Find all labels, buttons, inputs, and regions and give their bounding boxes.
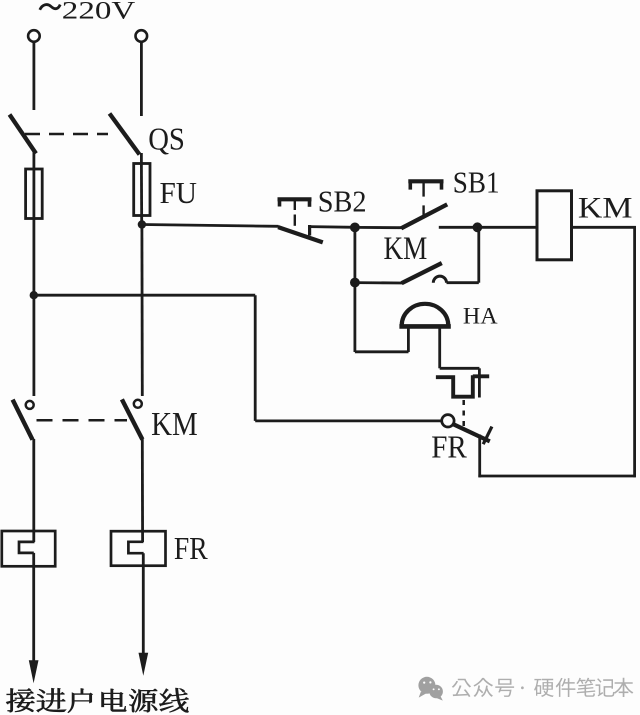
wire: right rail through fuse down to node D (140, 164, 143, 225)
wire: down to FR element (478, 368, 481, 397)
wire: node C run to FR contact (34, 294, 255, 297)
wm char 件 (556, 678, 576, 697)
svg-text:KM: KM (578, 192, 633, 225)
wire: bell right leg (438, 328, 441, 368)
wm char 众 (474, 678, 494, 697)
heater FR pole 1 (box) (2, 531, 55, 566)
char 进 (37, 688, 66, 712)
wire: KM coil to right rail (572, 226, 636, 229)
wire: left rail from terminal to QS (33, 42, 36, 110)
caption: 接进户电源线 (incoming household power lines) (6, 688, 188, 712)
wire: bottom return run (478, 475, 635, 478)
heater FR pole 2 jog (128, 542, 143, 553)
wire: right rail down to KM main contact (140, 225, 143, 397)
node C junction (left rail) (30, 292, 37, 299)
svg-text:FU: FU (160, 176, 198, 210)
FR contact blade (454, 424, 490, 441)
wire: across toward FR (440, 367, 480, 370)
wm char 笔 (576, 678, 595, 697)
wire: node B to KM coil (477, 226, 537, 229)
wire: drop to FR contact level (254, 295, 257, 421)
arrowhead right (139, 653, 149, 676)
wire: node A to SB1 (355, 226, 402, 229)
char 电 (102, 689, 127, 712)
char 源 (129, 689, 157, 712)
wire: node E down to bell branch (353, 283, 356, 353)
QS mechanical link (dashed) (25, 133, 108, 136)
node B junction (473, 223, 482, 232)
wire: bell left leg (407, 325, 410, 352)
pushbutton SB1 (NO, start) (401, 180, 447, 228)
wire: FR contact down to bottom run (478, 435, 481, 478)
svg-text:QS: QS (148, 121, 185, 156)
switch QS pole 1 (blade) (10, 115, 37, 154)
wire: left rail through fuse down to node C (33, 170, 36, 296)
wire: left outgoing conductor (32, 553, 35, 663)
FR contact stop tick (483, 427, 492, 445)
wm char 硬 (534, 679, 554, 697)
svg-text:HA: HA (463, 303, 498, 329)
wm char · (521, 686, 524, 689)
wire: to FR contact pivot (255, 419, 441, 422)
wire: right outgoing conductor (142, 553, 145, 656)
svg-text:KM: KM (384, 231, 428, 267)
wire: riser up to node B (477, 227, 480, 282)
wire: left rail to heater (32, 439, 35, 542)
FR mechanical link (dashed) (462, 400, 465, 428)
wm char 公 (452, 679, 471, 697)
char 户 (68, 689, 92, 713)
contact FR (NC, thermal overload) pivot (442, 415, 454, 427)
char 接 (6, 688, 34, 712)
pushbutton SB2 (NC, stop) (278, 198, 323, 242)
contact KM main pole 2 (122, 399, 142, 439)
wire: SB2 to node A (310, 225, 355, 228)
wire: QS pole1 to fuse (33, 152, 36, 170)
label: supply voltage ~220V (40, 5, 60, 10)
wm char 本 (614, 678, 634, 697)
terminal L1 (left supply terminal) (28, 30, 40, 42)
wire: aux contact to riser (447, 281, 479, 284)
svg-text:SB1: SB1 (453, 164, 500, 199)
node D junction below right fuse (138, 221, 145, 228)
svg-text:220V: 220V (62, 0, 136, 24)
KM mechanical link (dashed) (37, 419, 128, 422)
coil KM (contactor coil) (537, 191, 572, 260)
wire: left rail down to KM main contact (33, 296, 36, 396)
fuse FU pole 1 (left) (26, 169, 43, 219)
wm char 号 (495, 679, 514, 697)
wire: across to bell HA (355, 350, 409, 353)
svg-text:FR: FR (174, 530, 208, 566)
svg-text:SB2: SB2 (318, 185, 367, 219)
node E junction (self-hold branch) (351, 278, 360, 287)
wire: node A down to self-hold branch (353, 227, 356, 282)
wm char 记 (596, 678, 615, 696)
terminal L2 (right supply terminal) (136, 30, 148, 42)
wire: node E to KM aux contact (355, 281, 402, 284)
watermark wechat logo (418, 677, 443, 701)
wire: QS pole2 to fuse (140, 153, 143, 165)
thermal element FR (actuator) (436, 375, 489, 396)
wire: node D to SB2 (142, 225, 279, 227)
svg-text:KM: KM (151, 406, 198, 443)
wire: right rail from terminal to QS (140, 42, 143, 116)
switch QS pole 2 (blade) (110, 114, 140, 155)
bell HA (dome + base) (399, 304, 450, 327)
wire: right return rail (down) (633, 226, 636, 477)
heater FR pole 1 jog (19, 542, 35, 553)
contact KM main pole 1 (13, 400, 34, 440)
fuse FU pole 2 (right) (134, 164, 150, 216)
arrowhead left (29, 660, 39, 683)
char 线 (160, 688, 189, 712)
watermark text 公众号·硬件笔记本 (452, 678, 634, 697)
heater FR pole 2 (box) (111, 531, 166, 566)
node A junction (351, 223, 360, 232)
wire: SB1 to node B (439, 226, 478, 229)
svg-text:FR: FR (431, 430, 467, 465)
contact KM auxiliary (self-holding, NO) (402, 263, 447, 283)
wire: right rail to heater (141, 439, 144, 542)
